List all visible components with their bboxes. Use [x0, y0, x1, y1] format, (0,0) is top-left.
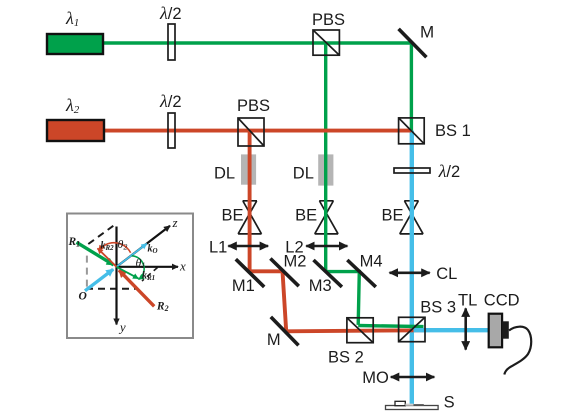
svg-text:M: M: [267, 331, 281, 349]
svg-text:CCD: CCD: [484, 292, 520, 310]
svg-text:M3: M3: [309, 277, 332, 295]
wire: red beam PBS down to M1: [248, 131, 252, 272]
angle arc θ2 (red): [99, 243, 131, 253]
svg-text:BS 1: BS 1: [435, 122, 471, 140]
dashed construction line (vertical, gray): [86, 256, 88, 289]
laser λ1 (green): [47, 34, 103, 54]
svg-text:M1: M1: [232, 277, 255, 295]
beamsplitter BS 1: [399, 118, 425, 144]
svg-text:λ2: λ2: [65, 95, 80, 116]
svg-text:y: y: [118, 320, 126, 335]
svg-text:S: S: [444, 394, 455, 412]
svg-text:PBS: PBS: [312, 11, 345, 29]
wire: red beam laser λ2 to BS1: [104, 129, 411, 133]
svg-text:BS 3: BS 3: [420, 299, 456, 317]
axis y: [115, 227, 117, 325]
PBS cube (green arm): [313, 30, 339, 55]
angle arc θ1 (green): [132, 256, 144, 280]
axis x: [117, 266, 179, 268]
mirror M4: [347, 260, 376, 287]
laser λ2 (red): [47, 120, 104, 141]
mirror M3: [314, 260, 342, 287]
svg-text:BE: BE: [222, 207, 244, 225]
wire: green beam BS2 to BS3: [358, 326, 423, 327]
beamsplitter BS 3: [399, 317, 425, 341]
inset: coordinate-geometry box: [67, 214, 193, 339]
svg-text:L1: L1: [209, 239, 227, 257]
vector R2 (red, thick): [119, 270, 154, 306]
svg-text:λ/2: λ/2: [159, 3, 182, 23]
mirror M2: [270, 259, 298, 287]
lens L1 (double arrow): [228, 245, 268, 248]
svg-text:M: M: [420, 23, 434, 42]
sample S chip (white box): [395, 401, 405, 405]
microscope objective MO (double arrow): [391, 376, 435, 379]
inset frame: [67, 214, 193, 339]
dashed construction line (upper diagonal): [88, 226, 113, 244]
wire: red beam M1 to M2 to M to BS3: [250, 271, 424, 331]
waveplate λ/2 (object arm, horizontal): [394, 168, 430, 173]
vector kR2 (red, thin): [98, 248, 117, 266]
beam expander BE (object arm): [400, 201, 423, 234]
wire: cyan beam BS3 to CCD: [414, 328, 489, 332]
wire: green beam PBS down to M3: [324, 42, 327, 271]
svg-text:λ1: λ1: [65, 8, 79, 29]
svg-text:λ/2: λ/2: [438, 161, 461, 181]
svg-text:BE: BE: [295, 207, 317, 225]
svg-text:MO: MO: [362, 369, 389, 387]
vector R1 (green, thick): [77, 242, 114, 265]
sample S base plate: [386, 406, 439, 410]
sample S chip (dark sliver): [414, 404, 424, 406]
beam expander BE (green arm): [315, 201, 338, 234]
CCD cable: [504, 327, 531, 375]
svg-text:TL: TL: [458, 292, 477, 310]
wire: cyan object beam BS1 down to sample S: [410, 131, 414, 406]
vector kR1 (green, thin): [117, 267, 139, 279]
tube lens TL (double arrow, vertical): [464, 308, 467, 349]
wire: green beam laser λ1 to mirror M: [103, 41, 412, 44]
PBS cube (red arm): [238, 118, 264, 146]
axis z: [117, 226, 171, 267]
svg-text:M2: M2: [284, 253, 307, 271]
svg-text:BE: BE: [382, 207, 404, 225]
lens L2 (double arrow): [306, 245, 347, 248]
CCD camera body: [489, 314, 502, 348]
dashed construction line (horizontal): [86, 288, 136, 290]
svg-text:CL: CL: [436, 265, 457, 283]
svg-text:DL: DL: [214, 165, 235, 183]
svg-text:M4: M4: [360, 253, 383, 271]
delay line DL (green arm): [318, 154, 333, 185]
mirror M1: [236, 259, 264, 287]
beamsplitter BS 2: [347, 318, 373, 343]
svg-text:BS 2: BS 2: [328, 349, 364, 367]
svg-text:λ/2: λ/2: [159, 91, 182, 111]
dashed construction line (right diagonal): [142, 268, 158, 282]
CCD connector: [502, 321, 509, 338]
svg-text:PBS: PBS: [237, 97, 270, 115]
svg-text:z: z: [172, 215, 178, 230]
mirror M (bottom): [271, 317, 299, 346]
wire: green beam M3 to M4 to BS2: [326, 272, 360, 325]
sample S chip (gray sliver): [405, 404, 413, 406]
svg-text:x: x: [179, 259, 186, 274]
waveplate λ/2 (green arm): [168, 24, 175, 60]
waveplate λ/2 (red arm): [168, 113, 175, 148]
mirror M (top right): [399, 29, 427, 57]
wire: green beam M down to BS1: [410, 43, 413, 131]
beam expander BE (red arm): [238, 201, 261, 234]
delay line DL (red arm): [241, 154, 256, 184]
svg-text:O: O: [79, 291, 87, 303]
vector kO (cyan): [117, 244, 147, 267]
vector O (cyan, thick): [85, 269, 113, 291]
svg-text:DL: DL: [293, 165, 314, 183]
collimating lens CL (double arrow): [390, 271, 430, 274]
